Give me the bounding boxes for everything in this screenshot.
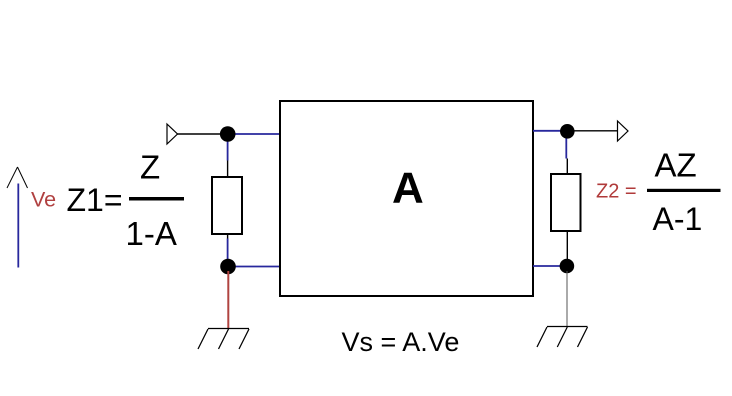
svg-text:Z2 =: Z2 =: [596, 181, 637, 203]
svg-text:A: A: [392, 164, 424, 213]
wire resistor to bottom node (black stub then blue): [227, 234, 229, 239]
svg-text:1-A: 1-A: [126, 215, 177, 252]
wire thin to ground right: [566, 271, 568, 327]
ground right: [537, 327, 588, 348]
svg-text:Z1=: Z1=: [67, 182, 123, 218]
source arrow Ve (blue shaft): [17, 184, 19, 268]
node left-bottom: [220, 259, 236, 275]
resistor Z1: [212, 177, 242, 234]
formula Z2 fraction bar: [647, 189, 721, 192]
wire left-top blue to box: [228, 133, 280, 135]
wire resistor to bottom node black: [566, 231, 568, 262]
wire input black: [178, 133, 229, 135]
wire node to output terminal black: [567, 130, 618, 132]
node right-top: [560, 124, 575, 139]
amplifier block A: [280, 101, 533, 296]
ground left: [198, 329, 249, 350]
svg-text:Z: Z: [140, 149, 160, 186]
wire right-top blue from box to node: [533, 130, 567, 132]
svg-text:A-1: A-1: [653, 201, 703, 237]
wire left-bottom blue to box: [228, 266, 280, 268]
wire red to ground: [227, 271, 229, 329]
svg-text:Ve: Ve: [31, 188, 56, 212]
svg-text:AZ: AZ: [655, 147, 697, 184]
svg-text:Vs = A.Ve: Vs = A.Ve: [342, 327, 460, 357]
formula Z1 fraction bar: [129, 197, 184, 201]
node left-top: [220, 126, 236, 142]
node right-bottom: [560, 259, 575, 274]
source arrow head: [7, 167, 28, 188]
wire node to resistor (blue then black): [565, 136, 567, 159]
input terminal triangle: [167, 124, 178, 144]
wire node to resistor (blue then black): [227, 138, 229, 161]
wire right-bottom blue from box to node: [533, 265, 567, 267]
output terminal triangle: [618, 121, 629, 141]
resistor Z2: [551, 174, 581, 231]
